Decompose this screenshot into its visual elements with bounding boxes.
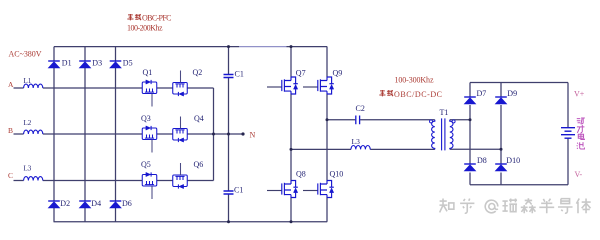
inductor L3 (resonant) bbox=[351, 146, 370, 150]
wire: secondary top to rectifier bbox=[450, 119, 470, 121]
diode D9 bbox=[495, 97, 507, 104]
diode D5 bbox=[110, 61, 122, 68]
capacitor C1 (upper) bbox=[224, 75, 234, 78]
svg-text:Q4: Q4 bbox=[194, 114, 204, 123]
svg-text:Q7: Q7 bbox=[296, 68, 306, 77]
svg-text:D7: D7 bbox=[477, 89, 487, 98]
wire: output V- rail bbox=[470, 138, 568, 185]
svg-text:Q9: Q9 bbox=[333, 68, 343, 77]
svg-text:C1: C1 bbox=[234, 186, 243, 195]
inductor L2 bbox=[24, 130, 43, 134]
wire: rectifier leg 3 (D5/D6) bbox=[115, 47, 117, 222]
watermark 知乎 @瑞森半导体 bbox=[439, 198, 590, 213]
svg-text:L3: L3 bbox=[24, 165, 32, 173]
svg-text:L2: L2 bbox=[24, 119, 32, 127]
transformer T1 secondary polarity dot bbox=[452, 120, 455, 123]
svg-text:D5: D5 bbox=[123, 59, 133, 68]
svg-text:T1: T1 bbox=[440, 108, 449, 117]
transistor Q6 bbox=[173, 163, 188, 189]
transistor Q8 bbox=[267, 181, 298, 198]
wire: Q9/Q10 bridge leg bbox=[326, 47, 328, 222]
svg-text:Q10: Q10 bbox=[330, 170, 344, 179]
transformer T1 secondary winding bbox=[450, 120, 453, 150]
svg-text:Q8: Q8 bbox=[296, 170, 306, 179]
wire: phase C row bbox=[14, 180, 214, 182]
transformer T1 primary polarity dot bbox=[430, 120, 433, 123]
inductor L3 (input) bbox=[24, 177, 43, 181]
capacitor C2 bbox=[356, 116, 360, 125]
svg-text:C2: C2 bbox=[356, 104, 365, 113]
svg-text:D6: D6 bbox=[122, 199, 132, 208]
transistor Q2 bbox=[173, 71, 188, 97]
svg-text:Q6: Q6 bbox=[194, 160, 204, 169]
svg-text:Q3: Q3 bbox=[141, 114, 151, 123]
wire: output rectifier right leg bbox=[500, 83, 502, 185]
diode D7 bbox=[464, 97, 476, 104]
svg-text:Q2: Q2 bbox=[193, 68, 203, 77]
svg-text:100-300Khz: 100-300Khz bbox=[395, 75, 434, 84]
capacitor C1 (lower) bbox=[224, 191, 234, 194]
wire: Q7/Q8 bridge leg bbox=[290, 47, 292, 222]
diode D10 bbox=[495, 164, 507, 171]
battery (traction pack) bbox=[561, 128, 575, 139]
wire: secondary bottom to rectifier bbox=[450, 148, 501, 150]
wire: DC+ top rail bbox=[54, 46, 239, 48]
label 动力电池 (traction battery, vertical) bbox=[577, 118, 585, 149]
wire: L3 resonant row bbox=[291, 148, 435, 150]
wire: rectifier leg 2 (D3/D4) bbox=[84, 47, 86, 222]
diode D6 bbox=[110, 201, 122, 208]
svg-text:D3: D3 bbox=[92, 59, 102, 68]
transistor Q5 bbox=[142, 172, 157, 199]
wire: C2 resonant row bbox=[327, 119, 435, 121]
diode D1 bbox=[48, 61, 60, 68]
transistor Q9 bbox=[303, 77, 334, 94]
inductor L1 bbox=[24, 84, 43, 88]
svg-text:OBC/DC-DC: OBC/DC-DC bbox=[394, 90, 442, 99]
diode D8 bbox=[464, 164, 476, 171]
wire: output rectifier left leg bbox=[469, 83, 471, 185]
svg-text:N: N bbox=[250, 131, 256, 140]
wire: phase A row bbox=[14, 87, 214, 89]
transistor Q1 bbox=[142, 80, 157, 107]
svg-text:C1: C1 bbox=[235, 70, 244, 79]
diode D4 bbox=[79, 201, 91, 208]
svg-text:D8: D8 bbox=[477, 156, 487, 165]
svg-text:D2: D2 bbox=[60, 199, 70, 208]
svg-text:V+: V+ bbox=[574, 90, 585, 99]
diode D3 bbox=[79, 61, 91, 68]
diode D2 bbox=[48, 201, 60, 208]
svg-text:B: B bbox=[8, 126, 13, 135]
svg-text:OBC-PFC: OBC-PFC bbox=[142, 14, 172, 23]
svg-text:C: C bbox=[8, 171, 13, 180]
svg-text:D1: D1 bbox=[62, 59, 72, 68]
transistor Q10 bbox=[303, 181, 334, 198]
wire: DC- bottom rail bbox=[54, 221, 328, 223]
title 车载 (OBC-PFC, hanzi part) bbox=[127, 14, 141, 20]
svg-text:100-200Khz: 100-200Khz bbox=[127, 24, 163, 33]
svg-text:Q1: Q1 bbox=[143, 68, 153, 77]
svg-text:A: A bbox=[8, 80, 14, 89]
transistor Q7 bbox=[267, 77, 298, 94]
svg-text:D4: D4 bbox=[91, 199, 101, 208]
node: junction dots bbox=[212, 45, 503, 223]
wire: phase B row to node N bbox=[14, 133, 244, 135]
wire: C1 split-capacitor column bbox=[228, 47, 230, 222]
transformer T1 core bbox=[442, 118, 445, 150]
transformer T1 primary winding bbox=[432, 120, 435, 150]
wire: rectifier leg 1 (D1/D2) bbox=[53, 47, 55, 222]
svg-text:L1: L1 bbox=[24, 77, 32, 85]
svg-text:D10: D10 bbox=[506, 156, 520, 165]
transistor Q4 bbox=[173, 117, 188, 143]
svg-text:V-: V- bbox=[575, 170, 583, 179]
title 车载 (OBC/DC-DC, hanzi part) bbox=[379, 90, 393, 96]
svg-text:AC~380V: AC~380V bbox=[9, 49, 42, 58]
svg-text:L3: L3 bbox=[352, 137, 361, 146]
svg-text:D9: D9 bbox=[507, 89, 517, 98]
wire: switch-pair output bus bbox=[213, 88, 215, 181]
svg-text:Q5: Q5 bbox=[141, 160, 151, 169]
wire: output V+ rail bbox=[470, 83, 568, 128]
transistor Q3 bbox=[142, 126, 157, 153]
